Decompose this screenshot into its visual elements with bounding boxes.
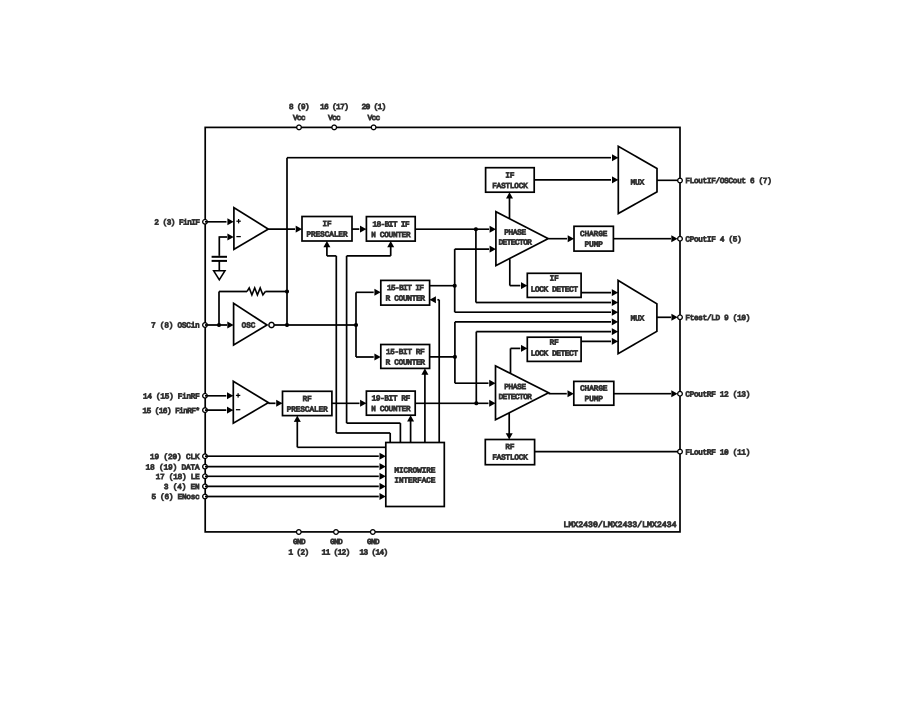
wire EN to MICROWIRE xyxy=(205,485,379,487)
pin OSCin 7 (8) xyxy=(203,323,208,328)
wire IF N counter tap to MUX2 input 2 xyxy=(476,302,611,304)
svg-text:LOCK DETECT: LOCK DETECT xyxy=(531,286,579,295)
RF PRESCALER block xyxy=(283,391,332,415)
IF LOCK DETECT block xyxy=(527,273,581,297)
15-BIT IF R COUNTER block xyxy=(381,280,430,305)
IF FASTLOCK block xyxy=(486,168,535,193)
GND pin 13 (14) xyxy=(371,530,376,535)
wire MUX1 to FLoutIF/OSCout pin xyxy=(657,179,678,181)
wire RF N counter output to RF phase detector xyxy=(415,402,488,404)
svg-text:20 (1): 20 (1) xyxy=(362,103,386,112)
svg-text:FLoutRF 10 (11): FLoutRF 10 (11) xyxy=(685,448,750,457)
svg-text:R COUNTER: R COUNTER xyxy=(386,295,426,304)
svg-text:DETECTOR: DETECTOR xyxy=(499,239,533,248)
wire RF N counter tap to MUX2 input 5 xyxy=(476,331,611,333)
wire RF phase detector to RF charge pump xyxy=(549,393,567,395)
svg-text:17 (18) LE: 17 (18) LE xyxy=(156,473,200,482)
wire OSC reference to MUX1 input 1 xyxy=(287,157,611,159)
wire OSC output bus xyxy=(274,324,356,326)
pin LE 17 (18) xyxy=(203,474,208,479)
wire MICROWIRE to IF prescaler control xyxy=(389,433,391,443)
wire IF prescaler to 18-BIT IF N counter xyxy=(352,228,359,230)
junction RF R counter output xyxy=(453,355,457,359)
wire RF fastlock to FLoutRF pin xyxy=(535,451,678,453)
pin CPoutIF 4 (5) xyxy=(678,236,683,241)
pin CPoutRF 12 (13) xyxy=(678,391,683,396)
wire IF R counter output xyxy=(430,285,455,287)
Vcc pin 20 (1) xyxy=(371,125,376,130)
wire IF R counter to IF phase detector lower input xyxy=(454,249,456,286)
pin DATA 18 (19) xyxy=(203,464,208,469)
RF LOCK DETECT block xyxy=(527,337,581,361)
wire IF buffer output to IF prescaler xyxy=(268,228,295,230)
OSC inverting output bubble xyxy=(269,322,274,327)
feedback resistor above OSC xyxy=(218,292,220,326)
RF PHASE DETECTOR xyxy=(496,366,549,420)
junction OSC output to R counters xyxy=(354,323,358,327)
svg-text:Vcc: Vcc xyxy=(328,115,340,123)
19-BIT RF N COUNTER block xyxy=(366,391,415,415)
wire RF lock detect to MUX2 input 6 xyxy=(581,340,611,342)
svg-text:7 (8) OSCin: 7 (8) OSCin xyxy=(151,322,199,331)
svg-text:3 (4) EN: 3 (4) EN xyxy=(164,483,200,492)
svg-text:18-BIT IF: 18-BIT IF xyxy=(373,220,410,229)
svg-text:Vcc: Vcc xyxy=(293,115,305,123)
wire FinRF* to RF buffer - input xyxy=(205,409,226,411)
wire RF R counter tap to MUX2 input 4 xyxy=(454,322,456,357)
RF FASTLOCK block xyxy=(485,440,534,465)
svg-text:R COUNTER: R COUNTER xyxy=(386,358,426,367)
svg-text:GND: GND xyxy=(330,538,343,547)
IF PRESCALER block xyxy=(302,217,352,242)
wire RF R counter to RF phase detector upper input xyxy=(454,357,456,383)
MUX2 Ftest/LD multiplexer xyxy=(618,280,657,353)
svg-text:IF: IF xyxy=(322,221,332,229)
IF PHASE DETECTOR xyxy=(496,212,548,266)
svg-text:LOCK DETECT: LOCK DETECT xyxy=(531,349,579,358)
svg-text:N COUNTER: N COUNTER xyxy=(371,405,411,414)
svg-text:PHASE: PHASE xyxy=(504,383,526,392)
capacitor on IF buffer - input xyxy=(212,256,227,258)
svg-text:15 (16) FinRF*: 15 (16) FinRF* xyxy=(143,407,200,416)
wire MICROWIRE to RF prescaler control xyxy=(297,446,386,448)
wire capacitor to ground xyxy=(218,262,220,271)
svg-text:1 (2): 1 (2) xyxy=(288,549,308,558)
svg-text:13 (14): 13 (14) xyxy=(359,549,387,558)
wire MICROWIRE control into IF R counter right side xyxy=(438,300,440,443)
wire OSCin to OSC buffer xyxy=(205,324,227,326)
wire RF phase detector to RF lock detect xyxy=(510,348,512,373)
svg-text:CPoutIF 4 (5): CPoutIF 4 (5) xyxy=(685,235,741,244)
wire DATA to MICROWIRE xyxy=(205,466,379,468)
junction OSC output to top mux line riser xyxy=(285,323,289,327)
OSC buffer xyxy=(234,303,267,345)
svg-text:PUMP: PUMP xyxy=(585,396,604,404)
svg-text:RF: RF xyxy=(550,340,560,348)
junction IF N counter output to MUX2 tap xyxy=(474,227,478,231)
svg-text:Ftest/LD 9 (10): Ftest/LD 9 (10) xyxy=(685,314,750,323)
wire FinIF to IF buffer + input xyxy=(205,221,227,223)
svg-text:OSC: OSC xyxy=(242,322,256,331)
svg-text:INTERFACE: INTERFACE xyxy=(394,477,435,486)
wire CLK to MICROWIRE xyxy=(205,455,379,457)
pin FinRF* 15 (16) xyxy=(203,408,208,413)
svg-text:19-BIT RF: 19-BIT RF xyxy=(372,395,411,404)
wire RF charge pump to CPoutRF pin xyxy=(614,393,671,395)
pin ENosc 5 (6) xyxy=(203,494,208,499)
svg-text:MUX: MUX xyxy=(631,315,645,323)
svg-text:N COUNTER: N COUNTER xyxy=(371,231,411,240)
pin FLoutRF 10 (11) xyxy=(678,449,683,454)
pin FinRF 14 (15) xyxy=(203,394,208,399)
wire MICROWIRE to RF N counter control xyxy=(410,421,412,443)
18-BIT IF N COUNTER block xyxy=(366,217,415,242)
junction RF N counter output to MUX2 tap xyxy=(474,401,478,405)
svg-text:15-BIT RF: 15-BIT RF xyxy=(386,349,425,357)
svg-text:CHARGE: CHARGE xyxy=(580,230,608,239)
wire LE to MICROWIRE xyxy=(205,475,379,477)
MUX1 output multiplexer xyxy=(618,146,657,213)
IF CHARGE PUMP block xyxy=(574,226,613,251)
wire IF fastlock to MUX1 input 2 xyxy=(534,179,611,181)
IF input buffer amplifier xyxy=(234,208,268,250)
svg-text:RF: RF xyxy=(505,444,515,452)
wire MICROWIRE to RF R counter control xyxy=(424,374,426,442)
svg-text:8 (9): 8 (9) xyxy=(289,103,309,112)
svg-text:5 (6) ENosc: 5 (6) ENosc xyxy=(151,493,199,502)
svg-text:11 (12): 11 (12) xyxy=(322,549,350,558)
svg-text:LMX2430/LMX2433/LMX2434: LMX2430/LMX2433/LMX2434 xyxy=(563,521,676,530)
wire OSC to 15-BIT IF R counter xyxy=(355,292,357,325)
svg-text:FLoutIF/OSCout 6 (7): FLoutIF/OSCout 6 (7) xyxy=(685,177,771,186)
junction on OSCin line at resistor leg xyxy=(217,323,221,327)
svg-text:MUX: MUX xyxy=(631,180,645,188)
pin EN 3 (4) xyxy=(203,484,208,489)
svg-text:CPoutRF 12 (13): CPoutRF 12 (13) xyxy=(685,390,750,399)
pin FLoutIF/OSCout 6 (7) xyxy=(678,178,683,183)
svg-text:GND: GND xyxy=(367,538,380,547)
svg-text:14 (15) FinRF: 14 (15) FinRF xyxy=(143,393,200,402)
Vcc pin 16 (17) xyxy=(332,125,337,130)
wire MICROWIRE to IF N counter control xyxy=(399,423,401,442)
svg-text:FASTLOCK: FASTLOCK xyxy=(492,453,528,462)
pin CLK 19 (20) xyxy=(203,454,208,459)
RF CHARGE PUMP block xyxy=(574,381,614,405)
15-BIT RF R COUNTER block xyxy=(381,345,430,369)
svg-text:2 (3) FinIF: 2 (3) FinIF xyxy=(154,219,200,228)
ground symbol xyxy=(214,271,225,280)
wire RF R counter output xyxy=(430,356,455,358)
wire IF phase detector to IF lock detect xyxy=(509,259,511,285)
svg-text:18 (19) DATA: 18 (19) DATA xyxy=(146,463,200,472)
RF input buffer amplifier xyxy=(233,381,268,423)
svg-text:DETECTOR: DETECTOR xyxy=(499,393,533,402)
svg-text:RF: RF xyxy=(303,396,313,404)
junction IF R counter output xyxy=(453,284,457,288)
svg-text:GND: GND xyxy=(293,538,306,547)
wire RF phase detector to RF fastlock xyxy=(508,413,510,434)
MICROWIRE INTERFACE block xyxy=(386,443,445,507)
svg-text:FASTLOCK: FASTLOCK xyxy=(492,182,528,191)
wire OSC to 15-BIT RF R counter xyxy=(355,325,357,357)
svg-text:PRESCALER: PRESCALER xyxy=(306,231,347,240)
svg-text:19 (20) CLK: 19 (20) CLK xyxy=(150,453,200,462)
wire IF charge pump to CPoutIF pin xyxy=(613,238,671,240)
wire IF R counter tap to MUX2 input 3 xyxy=(454,286,456,313)
wire IF phase detector to IF fastlock xyxy=(509,198,511,219)
svg-text:IF: IF xyxy=(505,172,515,180)
GND pin 11 (12) xyxy=(334,530,339,535)
wire RF prescaler to 19-BIT RF N counter xyxy=(332,402,360,404)
wire IF phase detector to IF charge pump xyxy=(548,238,567,240)
wire FinRF to RF buffer + input xyxy=(205,395,226,397)
wire MUX2 to Ftest/LD pin xyxy=(657,316,671,318)
wire RF buffer output to RF prescaler xyxy=(268,402,275,404)
svg-text:Vcc: Vcc xyxy=(368,115,380,123)
svg-text:PUMP: PUMP xyxy=(585,242,604,250)
outer chip boundary box xyxy=(205,127,680,532)
svg-text:IF: IF xyxy=(550,276,560,284)
junction resistor to OSC output riser xyxy=(285,290,289,294)
svg-text:CHARGE: CHARGE xyxy=(580,385,608,394)
wire IF lock detect to MUX2 input 1 xyxy=(581,292,611,294)
pin FinIF 2 (3) xyxy=(203,220,208,225)
pin Ftest/LD 9 (10) xyxy=(678,315,683,320)
GND pin 1 (2) xyxy=(297,530,302,535)
svg-text:PRESCALER: PRESCALER xyxy=(287,405,328,414)
Vcc pin 8 (9) xyxy=(297,125,302,130)
wire IF buffer - input from bypass node xyxy=(218,237,220,256)
wire ENosc to MICROWIRE xyxy=(205,496,379,498)
svg-text:15-BIT IF: 15-BIT IF xyxy=(387,285,424,293)
wire IF N counter output to IF phase detector xyxy=(415,228,489,230)
svg-text:PHASE: PHASE xyxy=(504,229,526,238)
svg-text:MICROWIRE: MICROWIRE xyxy=(394,467,435,476)
svg-text:16 (17): 16 (17) xyxy=(320,103,348,112)
